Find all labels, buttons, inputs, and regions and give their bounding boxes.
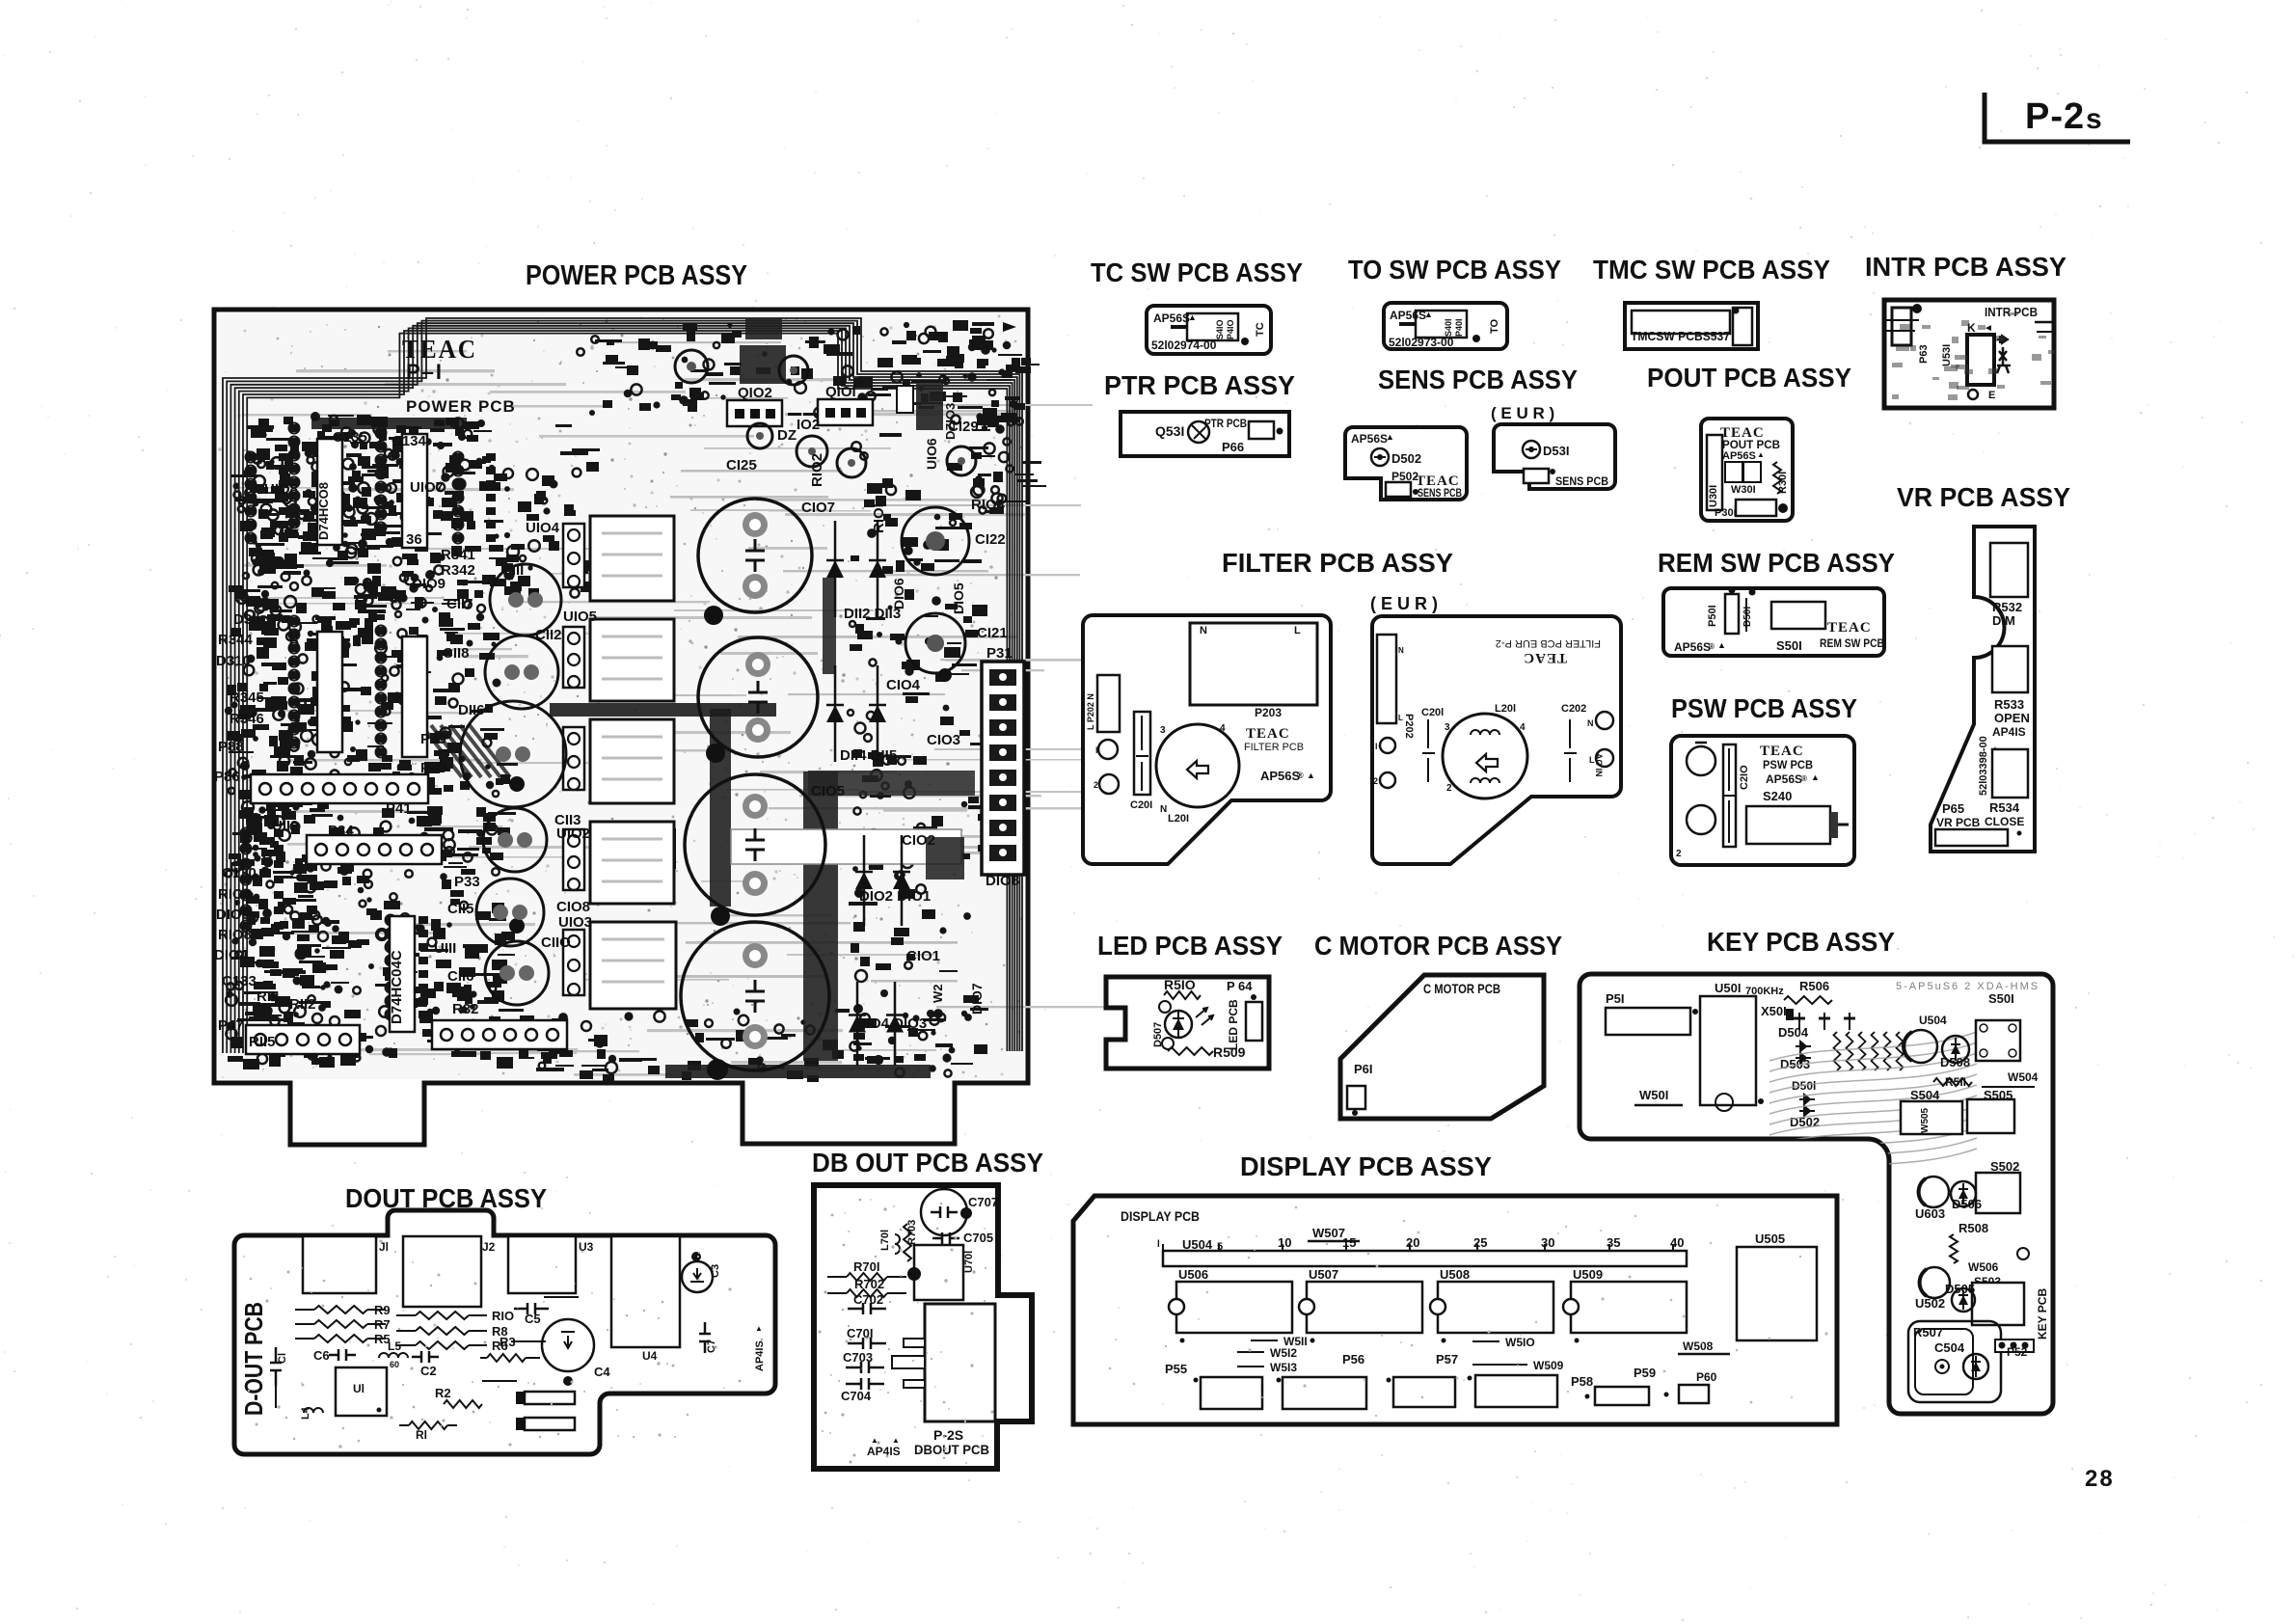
SENS board outline (US)	[1345, 427, 1467, 500]
svg-text:U30I: U30I	[1708, 485, 1719, 507]
svg-text:SENS PCB ASSY: SENS PCB ASSY	[1378, 365, 1578, 394]
svg-text:W50I: W50I	[1639, 1088, 1668, 1102]
svg-text:C20l: C20l	[1421, 707, 1444, 718]
svg-text:C5: C5	[525, 1312, 541, 1326]
svg-text:RII5: RII5	[249, 1034, 276, 1050]
svg-text:36: 36	[406, 531, 422, 548]
svg-text:CIO1: CIO1	[906, 948, 940, 964]
svg-text:W505: W505	[1920, 1107, 1931, 1133]
svg-text:CI25: CI25	[726, 457, 757, 474]
svg-text:P56: P56	[1342, 1352, 1364, 1367]
svg-text:R702: R702	[854, 1277, 884, 1291]
INTR interior	[1886, 304, 2055, 401]
component pad clutter	[225, 320, 1046, 1084]
svg-text:CIIO: CIIO	[541, 934, 571, 951]
svg-text:CIO2: CIO2	[902, 832, 935, 849]
svg-text:P6I: P6I	[1354, 1062, 1373, 1076]
VR board outline	[1931, 527, 2035, 852]
TMC switch	[1632, 308, 1752, 345]
svg-text:LED PCB: LED PCB	[1227, 999, 1240, 1050]
scan streak artifacts	[218, 313, 1233, 1079]
title TMC SW PCB ASSY	[1593, 255, 1830, 284]
svg-text:DISPLAY PCB ASSY: DISPLAY PCB ASSY	[1240, 1151, 1492, 1181]
svg-text:P58: P58	[1571, 1374, 1593, 1389]
svg-text:UIO8: UIO8	[264, 481, 298, 498]
svg-text:R7: R7	[374, 1317, 391, 1332]
svg-text:R346: R346	[230, 711, 264, 727]
label POWER PCB	[406, 397, 516, 416]
FILTER EUR interior	[1373, 635, 1613, 798]
svg-text:P59: P59	[1634, 1366, 1656, 1380]
svg-text:U505: U505	[1755, 1232, 1785, 1246]
svg-text:TC: TC	[1255, 322, 1266, 337]
capacitors C117 C112/C118 D116 C115 C110 C116	[460, 564, 566, 1005]
svg-text:DIO2 DIO1: DIO2 DIO1	[859, 888, 931, 905]
svg-text:28: 28	[2085, 1466, 2115, 1492]
svg-text:AP4IS: AP4IS	[754, 1340, 766, 1371]
svg-text:CLOSE: CLOSE	[1985, 815, 2024, 828]
DOUT board outline	[234, 1210, 775, 1454]
svg-text:U508: U508	[1440, 1267, 1470, 1282]
svg-text:P 64: P 64	[1227, 979, 1253, 993]
svg-text:D-OUT PCB: D-OUT PCB	[239, 1302, 268, 1416]
DISPLAY board outline	[1073, 1196, 1837, 1424]
svg-text:Rl: Rl	[416, 1428, 427, 1442]
svg-text:C20I: C20I	[1130, 799, 1152, 811]
title REM SW PCB ASSY	[1658, 548, 1895, 578]
svg-text:▲: ▲	[1424, 310, 1433, 319]
svg-text:S40I: S40I	[1444, 318, 1453, 337]
switch S410	[1171, 313, 1238, 340]
svg-text:U4: U4	[642, 1349, 658, 1363]
svg-text:CII6: CII6	[447, 968, 474, 985]
svg-text:U504: U504	[1919, 1014, 1947, 1027]
svg-text:P47: P47	[218, 1017, 244, 1034]
svg-text:U504: U504	[1182, 1237, 1213, 1252]
svg-text:L20I: L20I	[1168, 813, 1189, 825]
electrolytic capacitors C106 C105 C109 C114	[681, 499, 829, 1070]
svg-text:25: 25	[1473, 1235, 1487, 1250]
TO SW board outline	[1384, 303, 1507, 349]
svg-text:UIO6: UIO6	[924, 438, 939, 470]
svg-text:CI22: CI22	[975, 531, 1006, 548]
svg-text:W5IO: W5IO	[1505, 1336, 1535, 1349]
svg-text:S4IO: S4IO	[1215, 319, 1225, 339]
svg-text:X50I: X50I	[1761, 1004, 1787, 1018]
TMC SW board outline	[1625, 303, 1758, 349]
VR interior	[1935, 543, 2030, 846]
svg-text:IO2: IO2	[797, 417, 820, 433]
svg-text:P4IO: P4IO	[1226, 319, 1235, 339]
svg-text:PSW PCB ASSY: PSW PCB ASSY	[1671, 693, 1857, 723]
svg-text:SENS PCB: SENS PCB	[1555, 474, 1608, 488]
svg-text:PTR PCB: PTR PCB	[1204, 417, 1247, 430]
svg-text:R342: R342	[441, 562, 475, 579]
title DB OUT PCB ASSY	[812, 1148, 1043, 1177]
svg-text:UIO4: UIO4	[526, 520, 560, 536]
svg-text:D508: D508	[1940, 1055, 1970, 1069]
svg-text:W509: W509	[1533, 1359, 1564, 1372]
svg-text:VR PCB: VR PCB	[1936, 816, 1981, 829]
svg-text:2: 2	[1446, 783, 1452, 794]
title LED PCB ASSY	[1097, 931, 1283, 961]
svg-text:C504: C504	[1934, 1340, 1965, 1355]
svg-text:LED PCB ASSY: LED PCB ASSY	[1097, 931, 1283, 961]
svg-text:PTR PCB ASSY: PTR PCB ASSY	[1104, 370, 1295, 400]
svg-text:4: 4	[1520, 722, 1526, 733]
svg-text:L P202 N: L P202 N	[1086, 693, 1095, 730]
page number 28	[2085, 1466, 2115, 1492]
via dots	[509, 606, 952, 1080]
svg-text:R533: R533	[1994, 697, 2024, 712]
svg-text:L: L	[1398, 714, 1403, 722]
POUT interior	[1707, 425, 1789, 519]
svg-text:POWER PCB: POWER PCB	[406, 397, 516, 416]
svg-text:CI21: CI21	[977, 625, 1008, 641]
svg-text:CIO8: CIO8	[556, 899, 590, 915]
svg-text:TEAC: TEAC	[1760, 744, 1804, 759]
svg-text:R508: R508	[1958, 1221, 1988, 1235]
svg-text:W506: W506	[1968, 1260, 1999, 1274]
label EUR for sens	[1491, 404, 1554, 422]
svg-text:U507: U507	[1309, 1267, 1338, 1282]
svg-text:D506: D506	[1952, 1197, 1982, 1211]
svg-text:P33: P33	[454, 874, 480, 890]
svg-text:L20l: L20l	[1495, 703, 1516, 715]
svg-text:AP56S: AP56S	[1674, 640, 1711, 654]
svg-text:P40: P40	[420, 760, 446, 776]
svg-text:D505: D505	[1945, 1282, 1975, 1296]
svg-text:▲: ▲	[892, 1436, 900, 1445]
svg-text:U70l: U70l	[963, 1251, 975, 1273]
svg-text:C133: C133	[222, 973, 257, 989]
svg-text:l: l	[1095, 745, 1098, 755]
svg-text:R534: R534	[1989, 800, 2020, 815]
TEAC silkscreen logo	[402, 335, 477, 364]
svg-text:C2IO: C2IO	[1739, 765, 1750, 790]
svg-text:P5I: P5I	[1606, 991, 1625, 1006]
svg-text:C6: C6	[313, 1348, 330, 1363]
svg-text:VR PCB ASSY: VR PCB ASSY	[1897, 482, 2070, 512]
svg-text:INTR PCB: INTR PCB	[1985, 305, 2038, 319]
svg-text:CIO3: CIO3	[927, 732, 960, 748]
svg-text:CIO4: CIO4	[886, 677, 921, 693]
title SENS PCB ASSY	[1378, 365, 1578, 394]
svg-text:RIII: RIII	[257, 988, 279, 1005]
svg-text:D74HC04C: D74HC04C	[389, 950, 405, 1024]
svg-text:AP56S: AP56S	[1351, 432, 1388, 446]
title INTR PCB ASSY	[1865, 252, 2066, 282]
svg-text:®: ®	[1801, 774, 1807, 783]
svg-text:D504: D504	[1778, 1025, 1809, 1040]
svg-text:R9: R9	[374, 1303, 391, 1317]
svg-text:U509: U509	[1573, 1267, 1603, 1282]
FILTER EUR board outline	[1372, 616, 1621, 864]
svg-text:W5I2: W5I2	[1270, 1346, 1297, 1360]
svg-text:▲: ▲	[1188, 312, 1197, 322]
svg-text:AP4IS: AP4IS	[1992, 725, 2026, 739]
DB OUT board outline	[814, 1185, 1032, 1469]
POUT board outline	[1701, 419, 1793, 521]
title KEY PCB ASSY	[1707, 927, 1895, 957]
switch S401	[1399, 311, 1467, 338]
LED board outline	[1106, 977, 1269, 1069]
dark power traces	[550, 318, 975, 1078]
svg-text:C705: C705	[963, 1231, 993, 1245]
svg-text:U502: U502	[1915, 1296, 1945, 1311]
svg-text:DII4 DII5: DII4 DII5	[840, 747, 897, 764]
svg-text:POWER PCB ASSY: POWER PCB ASSY	[526, 260, 747, 291]
svg-text:L5: L5	[388, 1340, 401, 1353]
svg-text:U603: U603	[1915, 1206, 1945, 1221]
svg-text:QIO2: QIO2	[738, 385, 772, 401]
svg-text:DIO8: DIO8	[986, 873, 1019, 889]
svg-text:POUT PCB: POUT PCB	[1722, 438, 1780, 451]
LED interior	[1152, 977, 1262, 1060]
svg-text:UIO5: UIO5	[563, 609, 597, 625]
svg-text:R5IO: R5IO	[1164, 977, 1196, 992]
svg-text:DIO5: DIO5	[951, 582, 966, 614]
svg-text:P39: P39	[420, 731, 446, 747]
svg-text:CII2: CII2	[535, 627, 562, 643]
svg-text:C MOTOR PCB: C MOTOR PCB	[1423, 981, 1500, 996]
svg-text:E: E	[1988, 390, 1995, 401]
svg-text:( E U R ): ( E U R )	[1370, 594, 1438, 613]
svg-text:S50I: S50I	[1776, 638, 1802, 653]
capacitors C122 C121 C125 C123 C129	[675, 350, 976, 673]
title TC SW PCB ASSY	[1091, 257, 1303, 287]
title DISPLAY PCB ASSY	[1240, 1151, 1492, 1181]
svg-text:P52: P52	[2007, 1345, 2028, 1359]
svg-text:60: 60	[390, 1360, 399, 1369]
svg-text:C135: C135	[333, 429, 367, 446]
power board outline P-1	[214, 310, 1028, 1145]
svg-text:P55: P55	[1165, 1362, 1187, 1376]
svg-text:P40I: P40I	[1454, 318, 1464, 337]
svg-text:AP56S: AP56S	[1260, 769, 1301, 783]
svg-text:CII5: CII5	[447, 901, 474, 917]
svg-text:P34: P34	[328, 823, 354, 839]
svg-text:AC IN: AC IN	[1594, 753, 1604, 777]
svg-text:W2: W2	[931, 985, 945, 1004]
svg-text:KEY PCB ASSY: KEY PCB ASSY	[1707, 927, 1895, 957]
svg-text:R506: R506	[1799, 979, 1829, 993]
svg-text:▲: ▲	[1386, 432, 1394, 442]
svg-text:CII7: CII7	[446, 596, 473, 612]
FILTER interior	[1086, 623, 1317, 825]
svg-text:R703: R703	[906, 1220, 918, 1245]
svg-text:QIOI: QIOI	[825, 384, 856, 400]
svg-text:DIM: DIM	[1992, 613, 2015, 628]
svg-text:FILTER PCB ASSY: FILTER PCB ASSY	[1222, 548, 1453, 578]
svg-text:52l03398-00: 52l03398-00	[1978, 736, 1989, 796]
svg-text:AP56S: AP56S	[1153, 311, 1190, 325]
REM SW board outline	[1663, 588, 1884, 656]
svg-text:P41: P41	[386, 800, 412, 817]
svg-text:P66: P66	[1222, 440, 1244, 454]
svg-text:FILTER PCB EUR P-2: FILTER PCB EUR P-2	[1496, 637, 1601, 649]
svg-text:L: L	[1294, 625, 1301, 636]
SENS EUR interior	[1523, 441, 1608, 488]
label EUR for filter	[1370, 594, 1438, 613]
svg-text:AP56S: AP56S	[1766, 772, 1802, 786]
title VR PCB ASSY	[1897, 482, 2070, 512]
title FILTER PCB ASSY	[1222, 548, 1453, 578]
svg-text:▲: ▲	[1717, 640, 1726, 650]
PTR board outline	[1121, 412, 1289, 456]
svg-text:N: N	[1398, 646, 1404, 655]
svg-text:POUT PCB ASSY: POUT PCB ASSY	[1647, 363, 1851, 392]
SENS board outline (EUR)	[1494, 424, 1615, 489]
svg-text:R5II: R5II	[1945, 1075, 1966, 1089]
svg-text:DISPLAY PCB: DISPLAY PCB	[1121, 1208, 1200, 1224]
title PSW PCB ASSY	[1671, 693, 1857, 723]
svg-text:Ul: Ul	[353, 1382, 365, 1395]
C MOTOR interior	[1347, 981, 1500, 1116]
svg-text:OPEN: OPEN	[1994, 711, 2030, 725]
DB OUT interior components	[819, 1189, 999, 1464]
REM SW interior	[1674, 587, 1884, 655]
title DOUT PCB ASSY	[345, 1183, 547, 1213]
svg-text:U506: U506	[1178, 1267, 1208, 1282]
svg-text:S50I: S50I	[1988, 991, 2014, 1006]
svg-text:TMC SW PCB ASSY: TMC SW PCB ASSY	[1593, 255, 1830, 284]
svg-text:N: N	[1200, 625, 1207, 636]
svg-text:3: 3	[1445, 722, 1450, 733]
svg-text:▲: ▲	[1811, 772, 1820, 782]
title POUT PCB ASSY	[1647, 363, 1851, 392]
svg-text:10: 10	[1278, 1235, 1291, 1250]
DISPLAY interior components	[1107, 1204, 1828, 1417]
INTR board outline	[1884, 300, 2054, 408]
svg-text:RIO: RIO	[492, 1309, 514, 1323]
svg-text:W507: W507	[1312, 1226, 1345, 1240]
svg-text:R30I: R30I	[1777, 472, 1789, 494]
svg-text:TO SW PCB ASSY: TO SW PCB ASSY	[1348, 255, 1561, 284]
regulator blocks U104 U105 U101 U102 U103	[563, 516, 676, 1009]
svg-text:RIO8: RIO8	[218, 927, 252, 943]
svg-text:U3: U3	[579, 1240, 594, 1254]
svg-text:P30I: P30I	[1715, 507, 1737, 519]
PTR interior Q531 P66	[1155, 417, 1283, 454]
svg-text:W30I: W30I	[1731, 484, 1756, 496]
TC SW labels	[1151, 311, 1266, 352]
svg-text:TEAC: TEAC	[1523, 650, 1567, 665]
svg-text:P50I: P50I	[1707, 605, 1718, 627]
svg-text:l: l	[1375, 742, 1378, 751]
svg-text:UII2: UII2	[272, 818, 299, 834]
scan speckle texture on power board	[218, 315, 1022, 1078]
svg-text:2: 2	[1373, 776, 1378, 786]
title POWER PCB ASSY	[526, 260, 747, 291]
diodes D112 D113 D114 D115 D102 D101 D104 D103	[826, 521, 910, 1066]
svg-text:DIO9: DIO9	[216, 907, 250, 923]
svg-text:SENS PCB: SENS PCB	[1418, 486, 1462, 500]
svg-text:DII6: DII6	[458, 702, 485, 718]
svg-text:RIO8: RIO8	[218, 886, 252, 903]
svg-text:D310: D310	[216, 653, 251, 669]
svg-text:REM SW PCB: REM SW PCB	[1820, 636, 1884, 650]
svg-text:Cl: Cl	[277, 1353, 288, 1364]
svg-text:U50I: U50I	[1715, 981, 1741, 995]
TC SW board outline	[1147, 306, 1271, 354]
svg-text:TEAC: TEAC	[1827, 620, 1872, 636]
svg-text:DIO7: DIO7	[969, 983, 985, 1015]
svg-text:TEAC: TEAC	[1246, 726, 1290, 742]
svg-text:l: l	[1157, 1239, 1160, 1250]
connector P31	[982, 662, 1024, 875]
svg-text:Q53I: Q53I	[1155, 423, 1184, 439]
svg-text:DIO4: DIO4	[214, 947, 249, 963]
DOUT interior components	[239, 1236, 766, 1448]
power board component labels	[214, 384, 1019, 1050]
page frame corner mark for P-2s	[1985, 93, 2130, 142]
svg-text:PSW PCB: PSW PCB	[1763, 758, 1813, 771]
svg-text:CIO7: CIO7	[801, 500, 835, 516]
svg-text:D50I: D50I	[1742, 607, 1753, 627]
svg-text:C704: C704	[841, 1389, 872, 1403]
svg-text:C134: C134	[392, 433, 427, 449]
title TO SW PCB ASSY	[1348, 255, 1561, 284]
svg-text:▲: ▲	[1757, 450, 1765, 459]
svg-text:UIII: UIII	[434, 940, 456, 957]
svg-text:2: 2	[1676, 849, 1682, 859]
svg-text:N: N	[1160, 804, 1167, 815]
svg-text:P60: P60	[1696, 1370, 1717, 1384]
svg-text:FILTER PCB: FILTER PCB	[1244, 742, 1304, 753]
svg-text:R32: R32	[452, 1001, 479, 1017]
svg-text:REM SW PCB ASSY: REM SW PCB ASSY	[1658, 548, 1895, 578]
svg-text:20: 20	[1406, 1235, 1419, 1250]
nested perimeter traces	[223, 318, 1022, 1053]
svg-text:P-2: P-2	[2025, 96, 2085, 137]
svg-text:C4: C4	[594, 1365, 610, 1379]
svg-text:®: ®	[1709, 642, 1715, 651]
svg-text:®: ®	[1297, 771, 1304, 780]
svg-text:C702: C702	[853, 1292, 883, 1307]
svg-text:CIO5: CIO5	[811, 783, 845, 799]
svg-text:AP56S: AP56S	[1722, 450, 1756, 462]
svg-text:P–I: P–I	[406, 360, 444, 384]
svg-text:52l02974-00: 52l02974-00	[1151, 338, 1217, 352]
svg-text:3: 3	[1160, 725, 1166, 736]
svg-text:CIII: CIII	[501, 562, 524, 579]
svg-text:R345: R345	[230, 690, 264, 706]
svg-text:C2: C2	[420, 1364, 437, 1378]
svg-text:4: 4	[1220, 723, 1226, 734]
TO SW labels	[1389, 309, 1500, 349]
svg-text:DB OUT PCB ASSY: DB OUT PCB ASSY	[812, 1148, 1043, 1177]
svg-text:D53I: D53I	[1543, 444, 1569, 458]
svg-text:DZIO3: DZIO3	[943, 403, 958, 440]
svg-text:P63: P63	[1918, 344, 1930, 364]
svg-text:P88: P88	[218, 739, 244, 755]
svg-text:( E U R ): ( E U R )	[1491, 404, 1554, 422]
title C MOTOR PCB ASSY	[1314, 931, 1562, 961]
svg-text:C MOTOR PCB ASSY: C MOTOR PCB ASSY	[1314, 931, 1562, 961]
svg-text:D3ll: D3ll	[233, 611, 260, 628]
svg-text:J2: J2	[482, 1240, 496, 1254]
svg-text:INTR PCB ASSY: INTR PCB ASSY	[1865, 252, 2066, 282]
svg-text:L70l: L70l	[879, 1230, 891, 1251]
svg-text:P203: P203	[1255, 706, 1282, 719]
C MOTOR board outline	[1340, 975, 1544, 1119]
PSW interior	[1676, 743, 1849, 859]
PSW board outline	[1671, 736, 1854, 865]
svg-text:5-AP5uS6 2 XDA-HMS: 5-AP5uS6 2 XDA-HMS	[1896, 981, 2039, 992]
svg-text:W504: W504	[2008, 1070, 2039, 1084]
svg-text:5: 5	[1217, 1241, 1223, 1253]
